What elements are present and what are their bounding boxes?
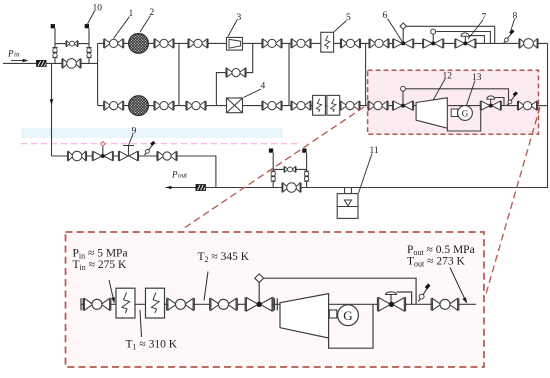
svg-text:G: G — [462, 108, 469, 118]
svg-text:5: 5 — [346, 13, 351, 23]
svg-text:2: 2 — [150, 8, 155, 18]
svg-text:P: P — [171, 170, 178, 180]
svg-text:10: 10 — [93, 4, 103, 14]
svg-text:13: 13 — [472, 73, 482, 83]
svg-text:9: 9 — [132, 127, 137, 137]
svg-text:4: 4 — [261, 82, 266, 92]
svg-text:1: 1 — [129, 9, 134, 19]
svg-text:P: P — [7, 49, 14, 59]
svg-text:out: out — [178, 172, 188, 180]
svg-text:in: in — [14, 51, 20, 59]
svg-text:3: 3 — [237, 13, 242, 23]
svg-text:6: 6 — [383, 11, 388, 21]
svg-text:8: 8 — [513, 12, 518, 22]
svg-text:G: G — [343, 308, 352, 323]
svg-text:7: 7 — [482, 13, 487, 23]
svg-text:12: 12 — [443, 72, 453, 82]
svg-text:11: 11 — [370, 146, 379, 156]
